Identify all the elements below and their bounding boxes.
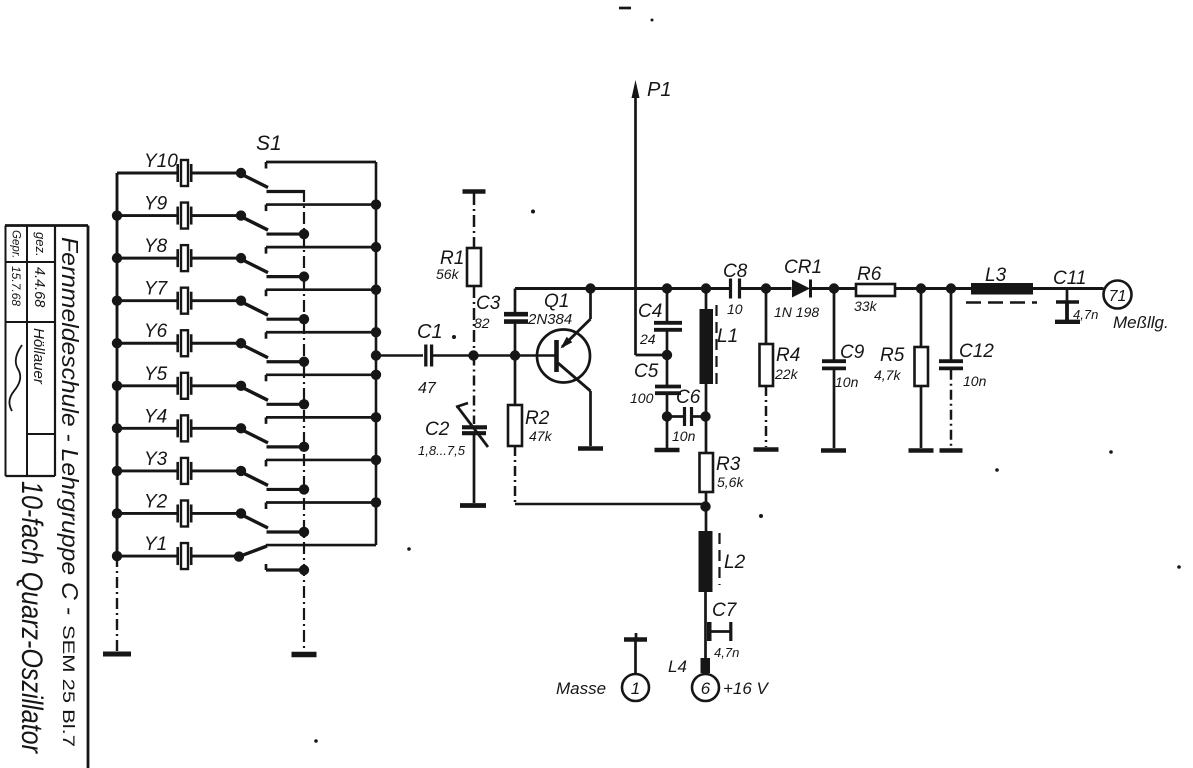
svg-text:C1: C1 [417,321,443,343]
svg-text:15.7.68: 15.7.68 [9,266,23,306]
scan specks [314,8,1181,743]
node: L1/C6 junction [700,411,710,421]
node: L1 top on bus [701,283,711,293]
trimmer capacitor C2 1,8...7,5 [418,356,488,504]
svg-text:Y5: Y5 [144,364,168,385]
svg-text:Y7: Y7 [144,279,169,300]
svg-text:C2: C2 [425,419,450,440]
crystal Y4 [117,406,241,441]
node: R3/L2/feedback junction [700,501,710,511]
ground (R5) [909,448,934,453]
node: bus junction Y4 [371,412,381,422]
svg-text:24: 24 [639,331,656,347]
left ground bus wire [116,173,119,651]
switch S1 label [256,132,282,155]
svg-text:Meßllg.: Meßllg. [1113,313,1169,332]
svg-text:R2: R2 [525,408,550,429]
ground (C9) [821,448,846,453]
node: C4 top on bus [662,283,672,293]
switch S1 contact Y5 (open) [236,375,376,410]
svg-text:10n: 10n [963,373,987,389]
node: bus junction Y5 [371,370,381,380]
svg-text:R6: R6 [857,264,882,285]
title block text: gez. 4.4.68 Hoellauer [30,232,48,385]
diode CR1 1N198 [774,257,822,320]
svg-text:gez.: gez. [33,232,48,257]
title text: Fernmeldeschule - Lehrgruppe C - SEM 25 Bl.7 [57,237,83,747]
svg-text:Y2: Y2 [144,491,168,512]
switch S1 contact Y10 (open) [236,162,376,192]
svg-text:6: 6 [701,679,711,698]
svg-text:Gepr.: Gepr. [10,230,22,258]
node: C4/C5 junction [662,350,672,360]
resistor R1 56k [436,193,481,356]
svg-text:33k: 33k [854,298,878,314]
title text: 10-fach Quarz-Oszillator [15,481,48,754]
svg-text:Q1: Q1 [544,291,569,312]
svg-text:47k: 47k [529,428,553,444]
node: left bus junction Y5 [112,381,122,391]
svg-text:C11: C11 [1053,268,1086,289]
svg-text:P1: P1 [647,79,671,101]
svg-text:C12: C12 [959,341,994,362]
title block frame [5,226,88,768]
svg-text:C3: C3 [476,293,501,314]
svg-text:1: 1 [631,679,640,698]
svg-text:C5: C5 [634,361,659,382]
switch S1 contact Y7 (open) [236,290,376,325]
ground (left bus) [103,652,131,657]
ground (C12) [940,448,963,453]
resistor R6 33k [854,264,895,314]
resistor R3 5,6k [700,453,745,532]
node A (R1/C2 tap) [468,350,478,360]
resistor R2 47k [508,356,553,507]
svg-text:Y3: Y3 [144,449,168,470]
node B (C3/R2 tap) [510,350,520,360]
svg-text:Y1: Y1 [144,534,167,555]
svg-text:S1: S1 [256,132,282,155]
supply rail bar above R1 [463,189,486,194]
svg-text:4,7k: 4,7k [874,367,901,383]
svg-text:+16 V: +16 V [723,679,770,698]
switch S1 contact Y2 (open) [236,502,376,537]
node: bus junction Y7 [371,284,381,294]
svg-text:R4: R4 [776,345,800,366]
switch S1 contact Y1 (closed) [234,545,376,575]
svg-text:L2: L2 [724,552,746,573]
svg-text:82: 82 [474,315,490,331]
switch S1 contact Y4 (open) [236,417,376,452]
svg-text:Y10: Y10 [144,151,178,172]
svg-text:4,7n: 4,7n [714,645,739,660]
svg-text:47: 47 [418,380,437,397]
right selection bus [375,162,378,545]
inductor L3 [966,265,1037,303]
node: C5/C6 junction [662,411,672,421]
node: bus junction Y2 [371,497,381,507]
switch S1 contact Y6 (open) [236,332,376,367]
ground (rotor) [292,652,317,658]
switch S1 contact Y3 (open) [236,460,376,495]
svg-text:C8: C8 [723,261,748,282]
ground (Q1 emitter) [578,446,603,451]
node: left bus junction Y7 [112,295,122,305]
crystal Y1 [117,534,241,569]
switch S1 contact Y8 (open) [236,247,376,282]
crystal Y5 [117,364,241,399]
svg-text:2N384: 2N384 [527,311,572,328]
svg-text:Fernmeldeschule - Lehrgruppe: Fernmeldeschule - Lehrgruppe C - [57,237,83,615]
svg-text:10n: 10n [835,374,859,390]
resistor R4 22k [760,289,801,448]
svg-text:1N 198: 1N 198 [774,304,819,320]
ground (R4) [754,447,779,452]
svg-text:1,8...7,5: 1,8...7,5 [418,443,466,458]
svg-text:Masse: Masse [556,679,606,698]
node: Q1 collector on bus [585,283,595,293]
node: bus junction Y6 [371,327,381,337]
feed-through capacitor C7 4,7n [707,600,739,660]
svg-text:SEM 25 Bl.7: SEM 25 Bl.7 [59,625,78,747]
resistor R5 4,7k [874,289,928,449]
title block text: Gepr. 15.7.68 signature [9,230,23,411]
ground (C2) [460,503,486,508]
inductor L4 [668,657,710,676]
terminal 71 : Messllg. output [1104,281,1169,333]
svg-text:Y8: Y8 [144,236,168,257]
node: left bus junction Y3 [112,466,122,476]
crystal Y8 [117,236,241,271]
node: left bus junction Y9 [112,210,122,220]
crystal Y2 [117,491,241,526]
svg-text:C6: C6 [676,387,701,408]
crystal Y9 [117,194,241,229]
node: C9 top on bus [829,283,839,293]
capacitor C3 82 [474,289,528,356]
node: left bus junction Y1 [112,551,122,561]
svg-text:L1: L1 [717,326,738,347]
svg-text:Y9: Y9 [144,194,168,215]
svg-text:22k: 22k [774,366,799,382]
node: bus junction Y8 [371,242,381,252]
svg-text:10: 10 [727,301,743,317]
capacitor C4 24 [638,289,682,356]
wire: bus to C1 [376,354,423,357]
node: bus junction Y3 [371,455,381,465]
capacitor C5 100 [630,355,681,448]
switch rotor line (dash-dot) [303,190,305,651]
svg-text:Höllauer: Höllauer [30,328,47,385]
test point P1 [632,79,672,355]
svg-text:R5: R5 [880,345,905,366]
svg-text:C7: C7 [712,600,738,621]
node: oscillator tap [371,350,381,360]
svg-text:C4: C4 [638,301,662,322]
transistor Q1 2N384 [527,289,591,446]
node: R4 top on bus [761,283,771,293]
capacitor C12 10n [939,289,994,449]
node: left bus junction Y6 [112,338,122,348]
terminal 1 : Masse [556,633,649,701]
inductor L2 [699,531,746,658]
switch S1 contact Y9 (open) [236,205,376,240]
node: left bus junction Y4 [112,423,122,433]
svg-text:L4: L4 [668,657,687,676]
svg-text:56k: 56k [436,266,460,282]
inductor L1 [700,289,739,454]
svg-text:5,6k: 5,6k [717,474,744,490]
svg-text:Y4: Y4 [144,406,167,427]
svg-text:100: 100 [630,390,654,406]
wire: C1 to base [433,354,556,357]
node: R5 top on bus [916,283,926,293]
terminal 6 : +16V [692,674,770,701]
node: left bus junction Y8 [112,253,122,263]
svg-text:10n: 10n [672,428,696,444]
svg-text:R3: R3 [716,454,741,475]
wire: feedback line to L2 node [515,503,706,506]
capacitor C9 10n [822,289,865,449]
capacitor C6 10n [667,387,705,444]
svg-text:4.4.68: 4.4.68 [31,267,47,307]
crystal Y3 [117,449,241,484]
collector bus wire [515,287,1104,290]
crystal Y7 [117,279,241,314]
node: C12 top on bus [946,283,956,293]
capacitor C8 10 [723,261,748,317]
capacitor C1 47 [417,321,443,397]
node: bus junction Y9 [371,199,381,209]
crystal Y6 [117,321,241,356]
svg-text:71: 71 [1109,288,1127,305]
crystal Y10 [117,151,241,186]
ground (C5) [655,448,680,453]
svg-text:CR1: CR1 [784,257,822,278]
svg-text:Y6: Y6 [144,321,168,342]
svg-text:L3: L3 [985,265,1007,286]
capacitor C11 4,7n [1053,268,1098,322]
node: left bus junction Y2 [112,508,122,518]
svg-text:10-fach Quarz-Oszillator: 10-fach Quarz-Oszillator [15,481,48,754]
